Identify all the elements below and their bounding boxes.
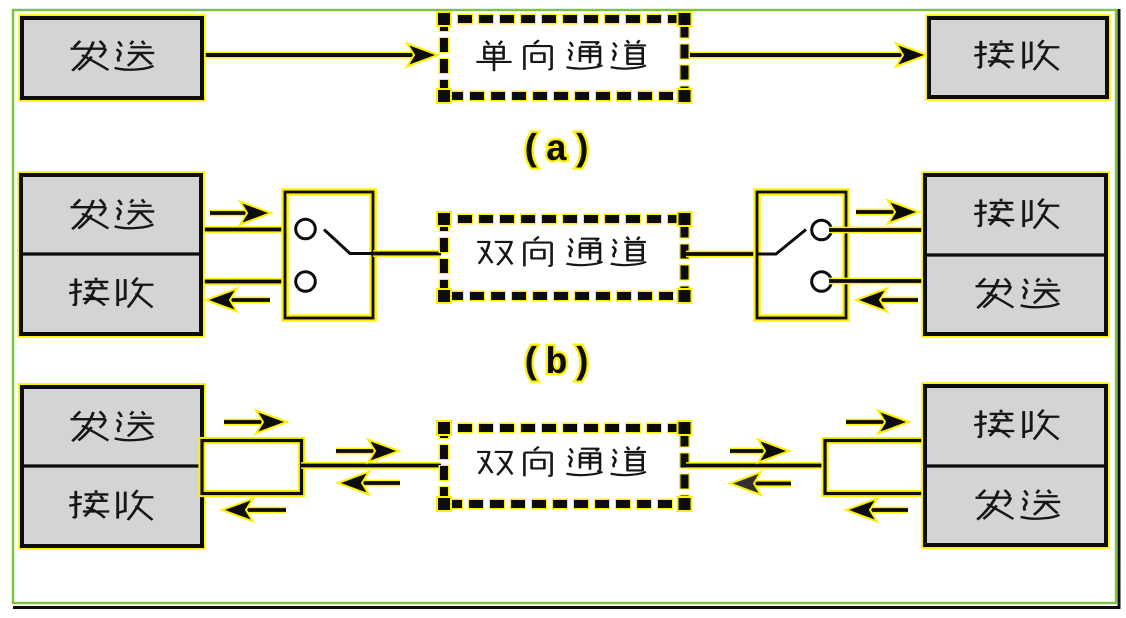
caption (b): [520, 343, 596, 385]
arrow left (c mid-right lower): [730, 472, 791, 495]
arrow right (c left top): [224, 411, 287, 434]
dashed box: 双向通道 two-way channel (c): [436, 420, 693, 512]
box: 发送 sender (a): [22, 18, 202, 98]
stacked boxes left (c): [22, 387, 202, 546]
wire: left combiner to channel (c): [301, 462, 441, 469]
combiner box right (c): [825, 441, 925, 494]
dashed box: 单向通道 one-way channel: [436, 11, 693, 104]
stacked boxes left (b): [21, 175, 201, 334]
arrow left (c right bottom): [846, 499, 908, 522]
contact circle bottom right switch: [812, 272, 832, 292]
wire: left box to top contact (b): [202, 226, 300, 233]
arrow left (c left bottom): [222, 499, 286, 522]
arrow left (b left bottom): [206, 289, 270, 312]
box: 接收 receiver (a): [929, 18, 1107, 97]
dashed box: 双向通道 two-way channel (b): [436, 211, 693, 304]
stacked boxes right (c): [925, 386, 1106, 545]
combiner box left (c): [202, 441, 302, 494]
switch box left (b): [285, 192, 373, 318]
arrow left (b right bottom): [856, 289, 918, 312]
wire: bottom contact to right boxes (b): [829, 278, 925, 285]
switch box right (b): [757, 192, 846, 318]
wire: left box to bottom contact (b): [202, 278, 300, 285]
caption (a): [520, 130, 596, 172]
wire: send to channel (a): [202, 44, 438, 67]
stacked boxes right (b): [925, 175, 1106, 334]
arrow right (c mid-right upper): [730, 440, 789, 463]
wire: channel to receive (a): [687, 44, 927, 67]
arrow right (b left top): [210, 202, 271, 225]
switch lever left: [324, 230, 373, 254]
svg-text:(b): (b): [520, 343, 596, 385]
arrow right (b right top): [856, 201, 919, 224]
arrow right (c right top): [846, 411, 909, 434]
contact circle top left switch: [296, 219, 316, 239]
wire: channel to right switch (b): [686, 251, 759, 258]
wire: channel to right combiner (c): [686, 462, 827, 469]
contact circle bottom left switch: [296, 272, 316, 292]
wire: left switch to channel (b): [371, 250, 441, 257]
switch lever right: [757, 230, 806, 255]
contact circle top right switch: [812, 220, 832, 240]
arrow right (c mid-left upper): [336, 440, 399, 463]
svg-text:(a): (a): [520, 130, 596, 172]
wire: top contact to right boxes (b): [829, 227, 925, 234]
arrow left (c mid-left lower): [338, 472, 400, 495]
